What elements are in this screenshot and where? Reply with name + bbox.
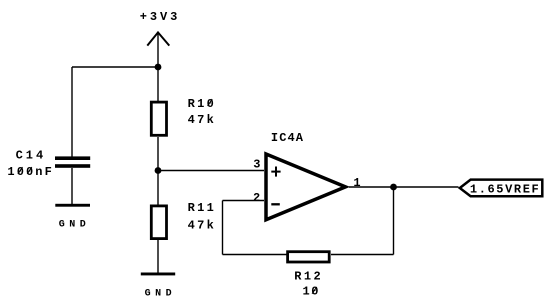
wire: node A to C14 branch (horizontal) [72,66,158,68]
wire: R12 right to feedback vertical [331,254,394,256]
wire: C14 top lead (vertical) [71,67,73,157]
ground symbol at R11 [141,273,175,276]
resistor R11 body [151,206,166,239]
power symbol +3V3 arrow [147,32,169,45]
resistor R12 body [288,252,330,262]
svg-text:GND: GND [59,219,91,230]
svg-text:IC4A: IC4A [271,131,304,145]
wire: R10 to node B [157,137,159,171]
wire: feedback vertical right (up to output) [393,187,395,255]
wire: node B to R11 [157,171,159,205]
capacitor C14 plates [55,156,90,167]
wire: node B to op-amp pin 3 [158,170,264,172]
svg-text:47k: 47k [188,113,217,127]
svg-text:100nF: 100nF [7,165,54,179]
svg-text:10: 10 [303,285,320,299]
wire: node A to R10 [157,67,159,101]
svg-text:2: 2 [253,191,260,205]
wire: feedback bottom to R12 left [223,254,288,256]
resistor R10 body [151,102,166,135]
junction node B (divider midpoint) [155,167,162,174]
svg-text:3: 3 [253,158,260,172]
wire: feedback vertical left [222,201,224,255]
op-amp IC4A triangle [266,154,346,220]
svg-text:R12: R12 [294,269,323,283]
op-amp minus input marking [271,203,280,205]
op-amp plus input marking [271,167,280,177]
wire: C14 bottom lead [71,168,73,204]
svg-text:+3V3: +3V3 [140,10,180,24]
net label flag 1.65VREF [460,180,543,197]
svg-text:1.65VREF: 1.65VREF [470,183,540,197]
svg-text:47k: 47k [188,218,217,232]
wire: R11 to ground [157,240,159,273]
junction node A [155,64,162,71]
svg-text:GND: GND [145,288,177,299]
junction node OUT [390,184,397,191]
svg-text:1: 1 [353,176,360,190]
svg-text:C14: C14 [16,148,47,162]
wire: op-amp output to label [349,186,459,188]
wire: op-amp pin 2 stub [223,200,265,202]
ground symbol at C14 [55,204,90,207]
svg-text:R11: R11 [188,201,217,215]
wire: +3V3 stem to node A [157,33,159,67]
